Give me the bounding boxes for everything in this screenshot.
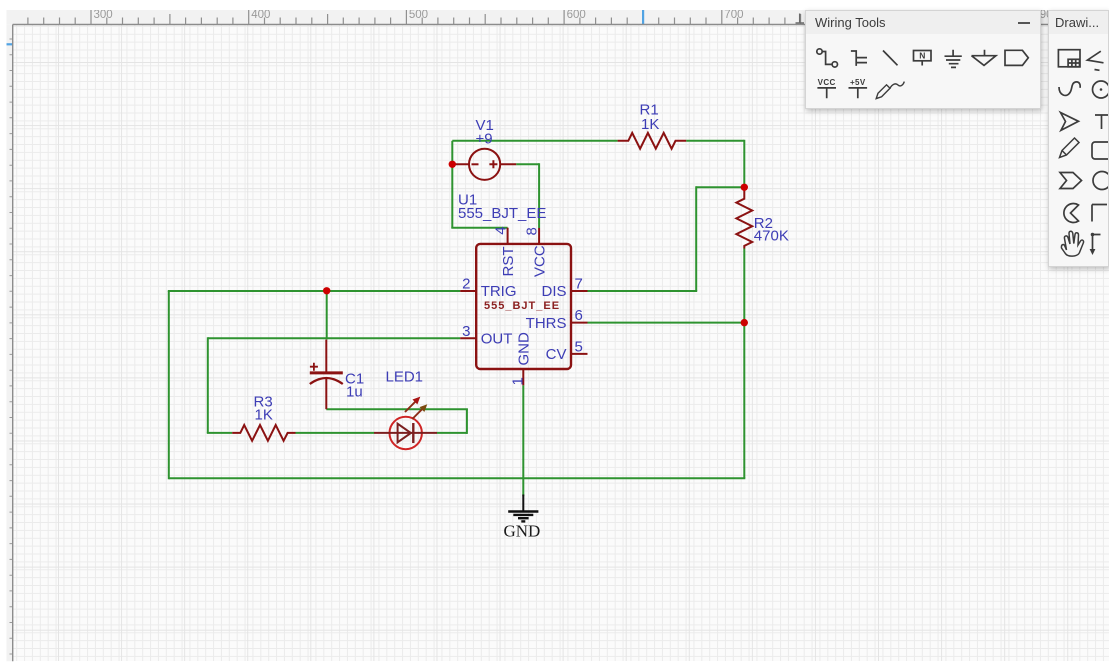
svg-text:5: 5 <box>575 338 583 355</box>
icon net port tool <box>1005 50 1028 65</box>
svg-text:4: 4 <box>493 226 510 234</box>
icon net label tool <box>914 51 932 66</box>
Drawing Tools palette <box>1048 10 1109 267</box>
label V1 <box>476 117 494 134</box>
icon VCC tool <box>817 78 836 98</box>
wire V1 minus up to top rail <box>451 141 453 165</box>
value 470K <box>754 227 789 244</box>
pin number 5 <box>575 338 583 355</box>
value +9 <box>476 131 493 148</box>
svg-text:GND: GND <box>515 332 532 366</box>
icon bus tool <box>851 51 867 66</box>
icon rect tool partial <box>1092 142 1109 159</box>
junction node B <box>741 184 748 191</box>
icon signal ground tool <box>945 50 962 68</box>
pin name THRS <box>526 315 567 332</box>
wire THRS pin 6 to node D <box>588 322 745 324</box>
svg-text:VCC: VCC <box>818 78 836 87</box>
white crop band over ruler label tops <box>0 0 1109 10</box>
value 1K <box>641 116 659 133</box>
svg-text:VCC: VCC <box>532 245 549 277</box>
label R3 <box>254 394 273 411</box>
svg-text:500: 500 <box>409 9 428 21</box>
wire down to node B <box>743 140 745 188</box>
pin 4 stub <box>507 228 509 244</box>
label 555_BJT_EE <box>458 205 546 222</box>
icon arrow tool <box>1061 113 1079 131</box>
wire to pin 4 <box>451 227 507 229</box>
resistor R1 <box>618 133 687 149</box>
wire down to pin 8 <box>538 163 540 228</box>
icon wire tool <box>817 49 838 67</box>
svg-text:470K: 470K <box>754 227 789 244</box>
svg-text:OUT: OUT <box>481 331 513 348</box>
part name 555_BJT_EE inside body <box>484 300 560 312</box>
pin name OUT <box>481 331 513 348</box>
wire left to C1 bottom <box>326 408 468 410</box>
pin 2 stub <box>460 290 476 292</box>
wire down to DIS row <box>695 186 697 291</box>
pin name VCC <box>532 245 549 277</box>
wire node C down to OUT row <box>326 291 328 339</box>
LED LED1 <box>374 397 437 449</box>
label C1 <box>345 370 364 387</box>
wire R1 to right corner <box>686 140 744 142</box>
svg-text:TRIG: TRIG <box>481 283 517 300</box>
wire node B left <box>696 186 744 188</box>
svg-text:3: 3 <box>462 323 470 340</box>
icon earth ground tool <box>972 50 996 66</box>
cursor position tick top ruler <box>642 10 644 24</box>
icon pencil tool <box>1060 138 1080 158</box>
icon line tool <box>883 51 898 66</box>
svg-text:7: 7 <box>575 276 583 293</box>
svg-text:8: 8 <box>524 227 541 235</box>
label R1 <box>640 102 659 119</box>
pin name GND <box>515 332 532 366</box>
pin number 4 <box>493 226 510 234</box>
resistor R2 <box>736 187 752 248</box>
Wiring Tools palette <box>805 10 1041 109</box>
svg-text:400: 400 <box>251 9 270 21</box>
cursor position tick left ruler <box>7 43 13 45</box>
pin 8 stub <box>538 228 540 244</box>
icon frame tool partial <box>1092 205 1107 222</box>
pin 3 stub <box>460 337 476 339</box>
svg-text:LED1: LED1 <box>386 368 424 385</box>
top ruler ticks <box>28 10 1100 24</box>
wire LED1 cathode right <box>437 432 467 434</box>
junction node C <box>323 287 330 294</box>
svg-text:600: 600 <box>567 9 586 21</box>
icon polyline tool partial <box>1087 51 1103 70</box>
left ruler ticks <box>10 39 13 654</box>
wire pin 1 down to ground <box>522 385 524 496</box>
icon arc pacman tool <box>1064 203 1079 222</box>
pin number 6 <box>575 307 583 324</box>
wire R3 to LED1 <box>296 432 375 434</box>
svg-text:N: N <box>919 51 925 61</box>
icon callout tool <box>1060 173 1082 189</box>
icon bezier tool <box>1059 82 1080 96</box>
wire left rail up to TRIG row <box>168 291 170 479</box>
wire up from LED row <box>466 409 468 434</box>
svg-text:+9: +9 <box>476 131 493 148</box>
pin number 1 <box>509 377 526 385</box>
pin name CV <box>546 346 567 363</box>
svg-text:2: 2 <box>462 276 470 293</box>
pin number 7 <box>575 276 583 293</box>
resistor R3 <box>232 425 295 441</box>
icon voltage probe tool <box>876 82 904 99</box>
capacitor C1 <box>310 340 343 410</box>
icon ellipse tool partial <box>1093 172 1109 190</box>
pin name TRIG <box>481 283 517 300</box>
junction node D <box>741 319 748 326</box>
ruler labels <box>94 9 1059 21</box>
icon arc tool partial <box>1093 81 1109 98</box>
svg-text:RST: RST <box>500 247 517 277</box>
pin 5 stub <box>571 353 588 355</box>
wire TRIG pin 2 <box>168 290 460 292</box>
svg-text:6: 6 <box>575 307 583 324</box>
wire V1 plus to pin8 corner <box>516 163 539 165</box>
pin number 3 <box>462 323 470 340</box>
junction node A <box>449 161 456 168</box>
svg-text:CV: CV <box>546 346 567 363</box>
svg-text:555_BJT_EE: 555_BJT_EE <box>458 205 546 222</box>
icon text tool partial <box>1095 115 1109 129</box>
label LED1 <box>386 368 424 385</box>
wire OUT down to R3 row <box>207 337 209 433</box>
ground symbol <box>508 495 538 522</box>
wire R2 bottom to node D <box>743 249 745 323</box>
value 1K <box>255 407 273 424</box>
pin 1 stub <box>522 369 524 385</box>
pin 7 stub <box>571 290 588 292</box>
wire top rail to R1 <box>452 140 617 142</box>
voltage source V1 <box>452 149 516 180</box>
pin number 8 <box>524 227 541 235</box>
svg-text:300: 300 <box>94 9 113 21</box>
svg-text:700: 700 <box>724 9 743 21</box>
wire OUT pin 3 <box>208 337 460 339</box>
wire node D down right rail <box>743 323 745 479</box>
svg-text:555_BJT_EE: 555_BJT_EE <box>484 300 560 312</box>
pin name DIS <box>541 283 566 300</box>
wire node A down <box>451 163 453 227</box>
icon +5V tool <box>849 78 868 98</box>
stray net-port glyph near ruler <box>796 14 805 24</box>
svg-text:1K: 1K <box>641 116 659 133</box>
pin name RST <box>500 247 517 277</box>
value 1u <box>346 384 363 401</box>
wire DIS pin 7 <box>588 290 698 292</box>
svg-text:GND: GND <box>504 522 541 541</box>
wire corner to R3 <box>207 432 232 434</box>
icon image tool <box>1058 50 1080 67</box>
net label GND <box>504 522 541 541</box>
svg-text:+5V: +5V <box>850 78 866 87</box>
label R2 <box>754 215 773 232</box>
pin number 2 <box>462 276 470 293</box>
svg-text:1: 1 <box>509 377 526 385</box>
svg-text:THRS: THRS <box>526 315 567 332</box>
svg-text:DIS: DIS <box>541 283 566 300</box>
IC U1 555_BJT_EE body <box>476 244 571 369</box>
label U1 <box>458 192 477 209</box>
icon drag route tool <box>1090 233 1101 255</box>
icon hand pan tool <box>1061 231 1083 256</box>
svg-text:1K: 1K <box>255 407 273 424</box>
wire bottom rail <box>169 477 746 479</box>
svg-text:1u: 1u <box>346 384 363 401</box>
pin 6 stub <box>571 322 588 324</box>
left ruler strip <box>7 24 13 661</box>
